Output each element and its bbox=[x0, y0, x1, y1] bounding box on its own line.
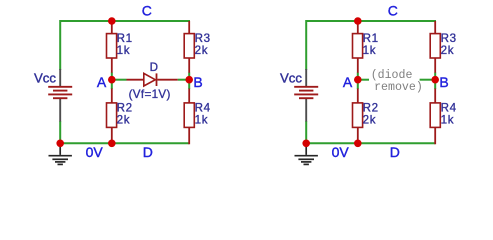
svg-text:C: C bbox=[388, 3, 398, 19]
junction dot node A (right circuit) bbox=[354, 76, 362, 84]
junction dot node B (right circuit) bbox=[431, 76, 439, 84]
svg-text:A: A bbox=[97, 74, 107, 90]
wire: vertical stub at node B bbox=[188, 73, 190, 90]
svg-text:1k: 1k bbox=[441, 113, 455, 126]
svg-text:B: B bbox=[439, 74, 448, 90]
wire: left vertical above battery (right circuit) bbox=[305, 20, 307, 70]
wire: vertical stub at node A (right circuit) bbox=[357, 73, 359, 90]
resistor R3 body (right circuit) bbox=[430, 34, 440, 58]
resistor R2 body (right circuit) bbox=[353, 103, 363, 128]
wire: top rail (net C) right circuit bbox=[306, 20, 436, 22]
resistor R1 body bbox=[107, 34, 117, 58]
resistor R3 pins (right circuit) bbox=[434, 21, 436, 73]
junction dot at node C (right circuit) bbox=[354, 17, 362, 25]
resistor R4 body bbox=[184, 103, 194, 128]
junction dot at R2 bottom (net D) bbox=[108, 140, 116, 148]
resistor R4 pins bbox=[188, 89, 190, 145]
svg-text:Vcc: Vcc bbox=[34, 71, 56, 86]
svg-text:A: A bbox=[343, 74, 353, 90]
svg-text:D: D bbox=[143, 144, 153, 160]
resistor R1 pins (right circuit) bbox=[357, 21, 359, 73]
resistor R4 pins (right circuit) bbox=[434, 89, 436, 145]
resistor R4 body (right circuit) bbox=[430, 103, 440, 128]
svg-text:D: D bbox=[150, 61, 159, 74]
wire: horizontal stub diode cathode to node B bbox=[178, 79, 189, 81]
wire: vertical stub at node B (right circuit) bbox=[434, 73, 436, 90]
svg-text:1k: 1k bbox=[195, 113, 209, 126]
svg-text:0V: 0V bbox=[86, 144, 104, 160]
resistor R1 body (right circuit) bbox=[353, 34, 363, 58]
wire: left vertical below battery (right circuit) bbox=[305, 121, 307, 143]
wire: bottom rail (net D / 0V) right circuit bbox=[306, 142, 435, 144]
svg-text:B: B bbox=[193, 74, 202, 90]
svg-text:(Vf=1V): (Vf=1V) bbox=[129, 88, 171, 101]
svg-text:2k: 2k bbox=[195, 44, 209, 57]
junction dot at ground / battery bottom (right circuit) bbox=[302, 140, 310, 148]
junction dot node B bbox=[185, 76, 193, 84]
svg-text:2k: 2k bbox=[117, 113, 131, 126]
wire: horizontal stub node A to diode anode bbox=[112, 79, 127, 81]
battery B2 Vcc (right circuit) bbox=[294, 69, 318, 122]
wire: horizontal stub left of node B bbox=[420, 79, 435, 81]
resistor R3 body bbox=[184, 34, 194, 58]
wire: horizontal stub right of node A bbox=[358, 79, 369, 81]
svg-text:1k: 1k bbox=[363, 44, 377, 57]
resistor R1 pins bbox=[111, 21, 113, 73]
svg-text:2k: 2k bbox=[441, 44, 455, 57]
battery B1 Vcc bbox=[48, 69, 72, 122]
ground bbox=[49, 143, 72, 164]
wire: left vertical below battery bbox=[59, 121, 61, 143]
svg-text:D: D bbox=[390, 144, 400, 160]
svg-text:1k: 1k bbox=[117, 44, 131, 57]
junction dot at node C (R1 top) bbox=[108, 17, 116, 25]
wire: top rail (net C) from battery top corner to R3 branch bbox=[60, 20, 190, 22]
junction dot node A bbox=[108, 76, 116, 84]
junction dot at ground / battery bottom bbox=[56, 140, 64, 148]
wire: bottom rail (net D / 0V) bbox=[60, 142, 189, 144]
svg-text:C: C bbox=[142, 3, 152, 19]
wire: vertical stub at node A bbox=[111, 73, 113, 90]
ground (right circuit) bbox=[295, 143, 318, 164]
diode D pins bbox=[127, 79, 178, 81]
svg-text:Vcc: Vcc bbox=[280, 71, 302, 86]
resistor R2 pins (right circuit) bbox=[357, 89, 359, 144]
resistor R3 pins bbox=[188, 21, 190, 73]
wire: left vertical above battery bbox=[59, 20, 61, 70]
resistor R2 pins bbox=[111, 89, 113, 144]
junction dot at R2 bottom (right circuit) bbox=[354, 140, 362, 148]
svg-text:0V: 0V bbox=[332, 144, 350, 160]
svg-text:remove): remove) bbox=[374, 81, 423, 94]
diode D body (triangle + cathode bar) bbox=[144, 73, 156, 86]
svg-text:2k: 2k bbox=[363, 113, 377, 126]
resistor R2 body bbox=[107, 103, 117, 128]
